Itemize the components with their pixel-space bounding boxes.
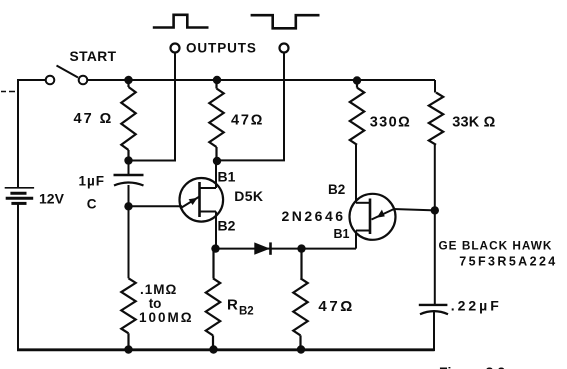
node Q1 B2 / diode junction xyxy=(211,244,219,252)
svg-text:Figure 3.2: Figure 3.2 xyxy=(439,364,505,369)
label RB2 xyxy=(227,297,254,318)
node top-rail junction C xyxy=(353,76,361,84)
label GE BLACK HAWK xyxy=(439,239,553,253)
resistor R6 RB2 xyxy=(206,249,220,350)
node emitter / 33K junction xyxy=(431,206,439,214)
svg-text:R: R xyxy=(227,297,238,314)
label OUTPUTS xyxy=(186,41,257,56)
label to xyxy=(149,296,162,311)
svg-text:D5K: D5K xyxy=(234,188,263,204)
label D5K xyxy=(234,188,263,204)
wire output1 drop xyxy=(129,53,176,161)
wire diode row xyxy=(216,248,357,250)
wire Q2 B1 lead xyxy=(355,231,357,249)
resistor R7 47ohm xyxy=(293,249,307,350)
svg-text:to: to xyxy=(149,296,162,311)
label 12V xyxy=(39,191,65,207)
switch START xyxy=(46,66,88,85)
node top-rail junction A xyxy=(124,76,132,84)
node emitter junction Q1 xyxy=(124,202,132,210)
resistor R1 47ohm xyxy=(121,80,135,161)
svg-text:47Ω: 47Ω xyxy=(318,298,355,315)
label 47ohm R2 xyxy=(231,113,264,129)
resistor R2 47ohm xyxy=(209,80,223,161)
waveform positive pulse xyxy=(153,15,209,28)
node bottom rail junction 3 xyxy=(297,345,305,353)
resistor R4 33Kohm xyxy=(429,93,443,145)
wire right column (33K / emitter / cap line) xyxy=(434,80,435,351)
wire left rail xyxy=(17,79,19,351)
svg-text:START: START xyxy=(70,49,117,64)
label .1Mohm xyxy=(140,282,177,297)
svg-text:B2: B2 xyxy=(239,306,254,318)
node diode / R7 junction xyxy=(297,244,305,252)
pin label B1 Q1 xyxy=(218,169,236,185)
label 47ohm R7 xyxy=(318,298,355,315)
capacitor C2 .22uF xyxy=(419,305,448,314)
node 47ohm/C1 junction xyxy=(124,156,132,164)
svg-text:OUTPUTS: OUTPUTS xyxy=(186,41,257,56)
capacitor C1 1uF xyxy=(114,161,144,207)
label 75F3R5A224 xyxy=(459,254,557,268)
output terminal 2 xyxy=(280,44,289,53)
svg-text:100MΩ: 100MΩ xyxy=(139,310,194,325)
diode D1 xyxy=(254,242,270,254)
transistor Q1 D5K unijunction xyxy=(180,178,224,222)
svg-text:.1MΩ: .1MΩ xyxy=(140,282,177,297)
node bottom rail junction 1 xyxy=(124,345,132,353)
svg-text:33K Ω: 33K Ω xyxy=(452,115,495,131)
label 33Kohm xyxy=(452,115,495,131)
svg-text:12V: 12V xyxy=(39,191,65,207)
wire Q1 B2 lead xyxy=(215,212,217,249)
node Q2 47ohm junction xyxy=(213,157,221,165)
transistor Q2 2N2646 unijunction xyxy=(350,194,396,240)
svg-text:C: C xyxy=(87,197,97,212)
wire Q1 B1 lead xyxy=(215,161,217,188)
waveform negative pulse xyxy=(251,15,320,28)
wire stray dash artifact xyxy=(1,91,15,93)
label 2N2646 xyxy=(282,208,346,224)
wire timing column drop xyxy=(128,206,130,278)
wire top rail xyxy=(18,79,435,81)
svg-text:1µF: 1µF xyxy=(79,174,106,189)
svg-text:B1: B1 xyxy=(334,227,350,241)
label C xyxy=(87,197,97,212)
output terminal 1 xyxy=(171,44,180,53)
resistor R5 .1M-100M xyxy=(121,278,135,350)
svg-text:GE BLACK HAWK: GE BLACK HAWK xyxy=(439,239,553,253)
battery 12V xyxy=(5,188,34,204)
svg-text:330Ω: 330Ω xyxy=(370,115,411,131)
label 100Mohm xyxy=(139,310,194,325)
svg-text:B2: B2 xyxy=(218,218,236,234)
svg-text:B1: B1 xyxy=(218,169,236,185)
node bottom rail junction 2 xyxy=(209,345,217,353)
node top-rail junction B xyxy=(213,76,221,84)
resistor R3 330ohm xyxy=(350,81,364,145)
pin label B1 Q2 xyxy=(334,227,350,241)
svg-text:2N2646: 2N2646 xyxy=(282,208,346,224)
wire output2 drop xyxy=(217,53,284,161)
svg-text:75F3R5A224: 75F3R5A224 xyxy=(459,254,557,268)
svg-text:47 Ω: 47 Ω xyxy=(74,111,114,127)
pin label B2 Q2 xyxy=(328,182,345,197)
label Figure caption (clipped) xyxy=(439,364,505,369)
wire emitter Q1 xyxy=(129,205,183,207)
label 330ohm xyxy=(370,115,411,131)
wire bottom rail xyxy=(17,348,435,351)
svg-text:47Ω: 47Ω xyxy=(231,113,264,129)
wire Q2 emitter xyxy=(393,209,435,210)
label 47ohm R1 xyxy=(74,111,114,127)
pin label B2 Q1 xyxy=(218,218,236,234)
label 1uF xyxy=(79,174,106,189)
svg-text:B2: B2 xyxy=(328,182,345,197)
label START xyxy=(70,49,117,64)
label .22uF xyxy=(451,298,502,314)
svg-text:.22µF: .22µF xyxy=(451,298,502,314)
wire Q2 B2 lead xyxy=(355,145,357,203)
